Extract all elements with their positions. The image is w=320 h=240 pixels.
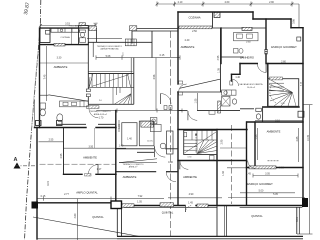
svg-text:3.05: 3.05 xyxy=(265,173,270,176)
svg-text:ESPAÇO GOURMET: ESPAÇO GOURMET xyxy=(271,45,297,49)
svg-text:2.80: 2.80 xyxy=(281,60,286,63)
svg-text:14.45: 14.45 xyxy=(307,134,310,141)
svg-text:TERRAÇO DESCOBERTO: TERRAÇO DESCOBERTO xyxy=(97,45,123,48)
svg-text:3.30: 3.30 xyxy=(57,56,62,59)
svg-text:2.60: 2.60 xyxy=(225,1,230,4)
svg-text:1.45: 1.45 xyxy=(246,173,251,176)
svg-text:2.50: 2.50 xyxy=(192,30,197,33)
svg-text:1.05: 1.05 xyxy=(194,98,197,103)
svg-text:3.10: 3.10 xyxy=(275,119,280,122)
svg-text:2.90: 2.90 xyxy=(269,1,274,4)
svg-text:0.15: 0.15 xyxy=(160,54,165,57)
svg-text:1.70: 1.70 xyxy=(99,117,104,120)
svg-text:1.15: 1.15 xyxy=(118,124,121,129)
svg-text:0.86: 0.86 xyxy=(292,19,295,24)
svg-text:2.40: 2.40 xyxy=(185,39,190,42)
svg-text:QUINTAL: QUINTAL xyxy=(92,215,104,219)
svg-text:7.92: 7.92 xyxy=(138,195,143,198)
svg-text:(ÁREA PRIVATIVA): (ÁREA PRIVATIVA) xyxy=(101,48,119,51)
svg-text:5.00: 5.00 xyxy=(259,190,264,193)
svg-text:0.15: 0.15 xyxy=(279,166,284,169)
svg-text:3.96: 3.96 xyxy=(153,74,156,79)
svg-text:AMPLO QUINTAL: AMPLO QUINTAL xyxy=(76,190,98,194)
svg-text:AMBIENTE: AMBIENTE xyxy=(183,175,197,179)
svg-text:BANHEIRO: BANHEIRO xyxy=(240,55,254,59)
svg-text:1.05: 1.05 xyxy=(218,68,221,73)
svg-text:PROJ.BEIRAL: PROJ.BEIRAL xyxy=(69,25,83,28)
svg-text:AMBIENTE: AMBIENTE xyxy=(267,130,281,134)
svg-text:10,00 m²: 10,00 m² xyxy=(247,86,256,89)
svg-text:COZINHA: COZINHA xyxy=(188,16,200,20)
svg-text:2.95: 2.95 xyxy=(60,153,63,158)
svg-text:5.05: 5.05 xyxy=(273,193,278,196)
svg-text:AMBIENTE: AMBIENTE xyxy=(54,65,68,69)
svg-text:TERRAÇO COBERTO: TERRAÇO COBERTO xyxy=(90,110,111,113)
svg-text:1.40: 1.40 xyxy=(235,76,240,79)
svg-text:1.40: 1.40 xyxy=(127,138,132,141)
svg-text:0.80: 0.80 xyxy=(168,161,173,164)
svg-text:2.77: 2.77 xyxy=(64,193,69,196)
svg-text:2.95: 2.95 xyxy=(221,139,224,144)
svg-text:1.05: 1.05 xyxy=(137,201,142,204)
svg-text:1.40: 1.40 xyxy=(119,144,124,147)
svg-text:ÁREA m²: ÁREA m² xyxy=(129,166,138,169)
svg-text:2.85: 2.85 xyxy=(296,136,299,141)
svg-text:0.15: 0.15 xyxy=(41,195,46,198)
svg-text:TERRAÇO COBERTO: TERRAÇO COBERTO xyxy=(123,163,144,166)
svg-text:4.80: 4.80 xyxy=(74,213,77,218)
svg-text:0.15: 0.15 xyxy=(296,217,299,222)
svg-text:0.15: 0.15 xyxy=(47,181,50,186)
svg-text:1.45: 1.45 xyxy=(188,202,193,205)
svg-text:ESPAÇO GOURMET: ESPAÇO GOURMET xyxy=(247,182,273,186)
svg-text:SACADA DESCOBERTA: SACADA DESCOBERTA xyxy=(239,83,263,86)
svg-text:CLOS.: CLOS. xyxy=(147,141,154,143)
svg-text:AMBIENTE: AMBIENTE xyxy=(123,175,137,179)
svg-text:QUINTAL: QUINTAL xyxy=(251,214,263,218)
svg-text:0.90: 0.90 xyxy=(188,157,192,159)
svg-text:AMBIENTE: AMBIENTE xyxy=(181,45,195,49)
svg-text:3.50: 3.50 xyxy=(88,145,93,148)
svg-text:1.05: 1.05 xyxy=(255,134,258,139)
svg-text:A: A xyxy=(14,157,18,163)
svg-text:AMBIENTE: AMBIENTE xyxy=(83,156,97,160)
svg-text:4.90: 4.90 xyxy=(189,193,194,196)
svg-text:0.60: 0.60 xyxy=(246,41,251,44)
svg-text:QUINTAL: QUINTAL xyxy=(162,211,174,215)
svg-text:7.45: 7.45 xyxy=(44,74,47,79)
svg-text:1.17: 1.17 xyxy=(97,168,102,171)
svg-text:5.08: 5.08 xyxy=(106,55,111,58)
svg-text:2.55: 2.55 xyxy=(49,138,54,141)
svg-text:1.30: 1.30 xyxy=(222,171,225,176)
svg-text:COZINHA: COZINHA xyxy=(60,36,70,39)
svg-text:2.10: 2.10 xyxy=(178,1,183,4)
svg-text:4.55: 4.55 xyxy=(217,55,220,60)
